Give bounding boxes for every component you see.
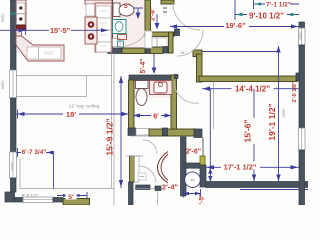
svg-text:3050: 3050 <box>298 31 303 41</box>
svg-text:3050: 3050 <box>0 13 5 23</box>
svg-text:2'-6": 2'-6" <box>186 148 201 155</box>
svg-text:19'-1 1/2": 19'-1 1/2" <box>267 103 277 140</box>
svg-text:18': 18' <box>66 110 76 119</box>
svg-text:3050: 3050 <box>281 108 286 118</box>
svg-text:15'-9 1/2": 15'-9 1/2" <box>105 118 115 155</box>
svg-text:2'-8": 2'-8" <box>150 7 157 21</box>
svg-text:36": 36" <box>180 51 186 55</box>
svg-text:6': 6' <box>153 114 159 121</box>
svg-text:3050: 3050 <box>0 80 5 90</box>
svg-text:15'-6": 15'-6" <box>243 119 253 142</box>
svg-text:9'-9 1/2": 9'-9 1/2" <box>22 193 39 198</box>
svg-text:5': 5' <box>68 194 74 201</box>
svg-text:2'-5": 2'-5" <box>199 194 206 205</box>
svg-text:2'-4": 2'-4" <box>162 183 179 192</box>
svg-text:wh: wh <box>190 178 195 182</box>
svg-text:9'-10 1/2": 9'-10 1/2" <box>249 12 284 21</box>
svg-text:17'-1 1/2": 17'-1 1/2" <box>224 163 257 172</box>
svg-text:14'-4 1/2": 14'-4 1/2" <box>235 85 270 94</box>
svg-text:15'-5": 15'-5" <box>50 26 71 35</box>
svg-text:7'-1 1/2": 7'-1 1/2" <box>266 2 291 9</box>
svg-text:5': 5' <box>124 3 130 10</box>
svg-text:19'-6": 19'-6" <box>225 21 246 30</box>
svg-text:3050: 3050 <box>10 161 15 171</box>
svg-text:2'-0 3/8": 2'-0 3/8" <box>292 81 298 102</box>
svg-text:6'-7 3/4": 6'-7 3/4" <box>22 149 47 156</box>
svg-text:5'-4": 5'-4" <box>140 58 147 73</box>
